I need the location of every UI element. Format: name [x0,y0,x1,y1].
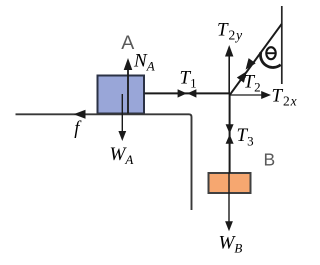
svg-text:T3: T3 [237,125,254,148]
svg-text:WB: WB [219,232,243,255]
svg-text:B: B [264,150,276,170]
svg-text:f: f [74,119,82,139]
svg-text:T2: T2 [244,72,261,95]
svg-text:NA: NA [133,51,155,74]
svg-text:WA: WA [110,144,134,167]
svg-text:T2x: T2x [272,85,298,108]
svg-text:T1: T1 [180,67,197,90]
svg-text:T2y: T2y [217,20,243,43]
svg-text:A: A [121,32,134,54]
